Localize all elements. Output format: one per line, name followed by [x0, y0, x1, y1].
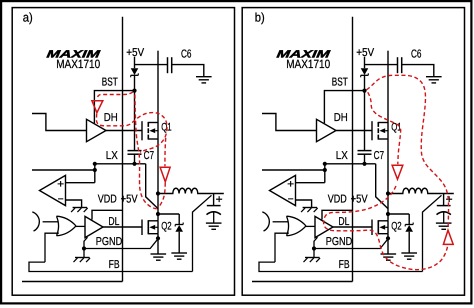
svg-text:C6: C6: [181, 48, 192, 60]
wire comparator + input: [66, 182, 95, 184]
diode D1 (BST bootstrap diode): [131, 68, 139, 75]
capacitor C7: [128, 150, 142, 152]
wire DL to Q2 gate: [103, 226, 142, 228]
MAXIM logo: [46, 48, 102, 60]
diode D2 schottky: [175, 224, 183, 226]
svg-text:DH: DH: [334, 112, 348, 124]
ground (D2): [401, 252, 417, 254]
svg-text:+: +: [287, 178, 294, 190]
wire output node down: [213, 194, 215, 206]
OR gate: [57, 216, 77, 236]
wire +5V to diode D1: [364, 57, 366, 68]
wire comparator + input: [296, 182, 325, 184]
ground (D2): [171, 252, 187, 254]
wire FB return bus: [259, 262, 423, 271]
gate (partial) input stage: [32, 212, 39, 231]
red loop b: bottom return to Q2/PGND: [324, 184, 448, 270]
capacitor C7: [358, 150, 372, 152]
red loop a: around DH driver and over Q1: [96, 113, 167, 153]
svg-text:+5V: +5V: [356, 47, 374, 59]
IC edge line: [122, 17, 124, 282]
ground (PGND): [313, 249, 315, 258]
wire D1 to BST node: [134, 75, 136, 90]
node inductor junction: [386, 191, 390, 195]
red loop b: from BST node over top: [367, 75, 449, 227]
wire PGND to Q2 source: [84, 239, 158, 249]
wire BST to C7: [364, 91, 366, 151]
svg-text:−: −: [288, 194, 294, 206]
wire OR lower input: [275, 233, 289, 262]
panel b frame: [242, 8, 464, 296]
red arrow a2 (down, at Q1 source): [160, 167, 170, 182]
capacitor C6: [167, 57, 169, 73]
wire LX jog to switch node: [376, 164, 388, 209]
IC edge line: [352, 17, 354, 282]
node LX/C7 junction: [362, 162, 366, 166]
ground (comparator): [73, 207, 88, 209]
MAXIM logo: [276, 48, 332, 60]
svg-text:PGND: PGND: [326, 236, 353, 248]
svg-text:VDD: VDD: [98, 193, 117, 205]
wire LX: [95, 163, 146, 165]
inductor L1: [158, 188, 224, 193]
transistor Q1: [141, 121, 143, 140]
wire PGND to Q2 source: [314, 239, 388, 249]
wire OR lower input: [45, 233, 59, 262]
node PGND junction: [82, 246, 86, 250]
transistor Q2: [371, 220, 373, 236]
red loop a: Q1 source branch: [164, 138, 167, 166]
IC bottom bus wire: [22, 281, 123, 283]
ground (Q2): [151, 253, 167, 255]
red arrow a1 (down, at DH driver): [92, 101, 103, 113]
V+ input line to Q1 drain: [387, 51, 389, 123]
svg-text:C7: C7: [374, 150, 385, 162]
wire switch node to D2: [388, 213, 409, 215]
ground (PGND): [83, 249, 85, 258]
wire LX: [325, 163, 376, 165]
svg-text:MAX1710: MAX1710: [56, 57, 100, 71]
svg-text:Q2: Q2: [391, 221, 402, 233]
wire C6 to ground: [172, 65, 204, 77]
wire output to FB divider: [193, 195, 212, 271]
svg-text:+: +: [57, 178, 64, 190]
panel a frame: [12, 8, 234, 296]
switch node rail Q1 source to Q2 drain: [387, 139, 389, 221]
svg-text:+: +: [446, 194, 453, 206]
wire DH to Q1 gate: [106, 130, 142, 132]
svg-text:C6: C6: [411, 48, 422, 60]
wire switch node to D2: [158, 213, 179, 215]
svg-text:MAX1710: MAX1710: [286, 57, 330, 71]
red loop a: to LX junction: [158, 183, 165, 209]
svg-text:+5V: +5V: [121, 193, 138, 205]
buffer DL driver: [85, 216, 103, 237]
op-amp U1 comparator: [270, 175, 296, 205]
wire DL driver return to PGND: [314, 237, 318, 248]
wire BST to DH driver: [94, 91, 134, 124]
wire FB return bus: [29, 262, 193, 271]
wire LX jog to switch node: [146, 164, 158, 209]
red loop b: inner branch from BST: [368, 92, 401, 164]
wire +5V rail to C6: [135, 64, 168, 66]
svg-text:a): a): [23, 10, 33, 24]
svg-text:FB: FB: [109, 259, 120, 271]
wire OR output to DL driver: [76, 225, 85, 227]
wire output node down: [443, 194, 445, 206]
ground (comparator): [303, 207, 318, 209]
diode D2 schottky: [405, 224, 413, 226]
node feedback tap junction: [323, 168, 327, 172]
node LX/C7 junction: [132, 162, 136, 166]
red loop a: return through C7 to LX node: [135, 95, 157, 209]
wire DH to Q1 gate: [336, 130, 372, 132]
red gate-charge loop a: BST top edge: [97, 92, 133, 100]
OR gate: [287, 216, 307, 236]
IC bottom bus wire: [252, 281, 353, 283]
buffer DH driver: [87, 119, 107, 141]
node PGND junction: [312, 246, 316, 250]
svg-text:+5V: +5V: [126, 47, 144, 59]
DH input stub: [32, 114, 87, 131]
node Q2 source junction: [386, 236, 390, 240]
svg-text:b): b): [255, 10, 265, 24]
svg-text:DL: DL: [338, 216, 349, 228]
wire BST to DH driver: [324, 91, 364, 124]
buffer DH driver: [317, 119, 337, 141]
svg-text:−: −: [58, 194, 64, 206]
ground (C-out): [436, 222, 452, 224]
svg-text:FB: FB: [339, 259, 350, 271]
diode D1 (BST bootstrap diode): [361, 68, 369, 75]
wire D1 to BST node: [364, 75, 366, 90]
svg-text:DH: DH: [104, 112, 118, 124]
node LX sense junction: [323, 162, 327, 166]
wire LX stub left: [262, 169, 325, 171]
svg-text:LX: LX: [336, 150, 348, 162]
capacitor C6: [397, 57, 399, 73]
wire DL to Q2 gate: [333, 226, 372, 228]
svg-text:LX: LX: [106, 150, 118, 162]
wire comparator - input to ground: [66, 200, 82, 207]
svg-text:BST: BST: [102, 76, 118, 88]
wire DL driver return to PGND: [84, 237, 88, 248]
wire BST to C7: [134, 91, 136, 151]
switch node rail Q1 source to Q2 drain: [157, 139, 159, 221]
wire output to FB divider: [423, 195, 442, 271]
wire +5V to diode D1: [134, 57, 136, 68]
wire LX stub left: [32, 169, 95, 171]
node BST junction: [132, 89, 136, 93]
node inductor junction: [156, 191, 160, 195]
node LX sense junction: [93, 162, 97, 166]
svg-text:BST: BST: [332, 76, 348, 88]
svg-text:PGND: PGND: [96, 236, 123, 248]
wire OR output to DL driver: [306, 225, 315, 227]
V+ input line to Q1 drain: [157, 51, 159, 123]
buffer DL driver: [315, 216, 333, 237]
wire VDD to DL driver: [322, 210, 353, 219]
svg-text:C7: C7: [144, 150, 155, 162]
gate (partial) input stage: [262, 212, 269, 231]
ground (C6): [196, 76, 212, 78]
ground (C-out): [206, 222, 222, 224]
wire C6 to ground: [402, 65, 434, 77]
ground (Q2): [381, 253, 397, 255]
node Q2 drain junction: [386, 212, 390, 216]
ground (C6): [426, 76, 442, 78]
node feedback tap junction: [93, 168, 97, 172]
transistor Q1: [371, 121, 373, 140]
svg-text:VDD: VDD: [328, 193, 347, 205]
op-amp U1 comparator: [40, 175, 66, 205]
wire +5V rail to C6: [365, 64, 398, 66]
svg-text:DL: DL: [108, 216, 119, 228]
svg-text:+: +: [216, 194, 223, 206]
svg-text:+5V: +5V: [351, 193, 368, 205]
DH input stub: [262, 114, 317, 131]
node BST junction: [362, 89, 366, 93]
node Q2 drain junction: [156, 212, 160, 216]
red arrow b2 (down, at LX): [392, 165, 403, 179]
red arrow b1 (up, output return): [443, 230, 453, 244]
inductor L1: [388, 188, 454, 193]
svg-text:Q2: Q2: [161, 221, 172, 233]
node Q2 source junction: [156, 236, 160, 240]
wire comparator - input to ground: [296, 200, 312, 207]
transistor Q2: [141, 220, 143, 236]
wire VDD to DL driver: [92, 210, 123, 219]
